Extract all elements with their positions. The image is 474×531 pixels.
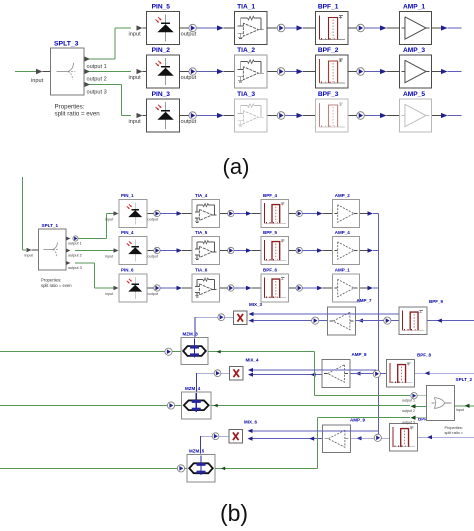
svg-text:PIN_6: PIN_6 xyxy=(121,267,134,272)
svg-text:MIX_6: MIX_6 xyxy=(244,420,258,425)
svg-text:output: output xyxy=(148,292,160,296)
svg-text:BPF_3: BPF_3 xyxy=(318,91,339,98)
svg-text:output 2: output 2 xyxy=(402,409,415,413)
svg-text:SPLT_2: SPLT_2 xyxy=(456,377,473,382)
svg-text:SPLT_1: SPLT_1 xyxy=(42,223,59,228)
svg-text:AMP_8: AMP_8 xyxy=(352,352,368,357)
svg-text:input: input xyxy=(31,78,44,84)
svg-text:AMP_2: AMP_2 xyxy=(335,193,351,198)
svg-text:output: output xyxy=(181,32,197,38)
svg-text:MZM_4: MZM_4 xyxy=(185,386,201,391)
svg-text:PIN_1: PIN_1 xyxy=(121,193,134,198)
svg-text:output: output xyxy=(181,75,197,81)
svg-text:MIX_3: MIX_3 xyxy=(249,302,263,307)
svg-text:input: input xyxy=(105,254,114,258)
svg-text:split ratio = even: split ratio = even xyxy=(55,111,101,118)
svg-text:AMP_1: AMP_1 xyxy=(335,267,351,272)
svg-text:output: output xyxy=(148,254,160,258)
svg-text:input: input xyxy=(25,254,34,258)
svg-text:input: input xyxy=(129,32,142,38)
svg-text:TIA_2: TIA_2 xyxy=(237,47,255,54)
svg-text:TIA_6: TIA_6 xyxy=(195,267,208,272)
svg-text:input: input xyxy=(129,119,142,125)
svg-text:input: input xyxy=(456,408,464,412)
svg-text:output: output xyxy=(181,119,197,125)
svg-text:Properties:: Properties: xyxy=(41,278,61,283)
svg-text:BPF_1: BPF_1 xyxy=(318,3,339,10)
svg-text:PIN_5: PIN_5 xyxy=(152,3,171,10)
svg-text:BPF_5: BPF_5 xyxy=(263,230,278,235)
svg-text:BPF_2: BPF_2 xyxy=(318,47,339,54)
svg-text:PIN_2: PIN_2 xyxy=(152,47,171,54)
svg-text:output 2: output 2 xyxy=(87,77,107,83)
svg-text:split ratio = even: split ratio = even xyxy=(41,283,72,288)
svg-text:split ratio =: split ratio = xyxy=(445,431,464,435)
svg-text:AMP_5: AMP_5 xyxy=(403,91,425,98)
svg-text:Properties:: Properties: xyxy=(445,426,463,430)
svg-text:PIN_3: PIN_3 xyxy=(152,91,171,98)
svg-text:output 3: output 3 xyxy=(402,420,415,424)
svg-text:PIN_4: PIN_4 xyxy=(121,230,134,235)
svg-text:TIA_3: TIA_3 xyxy=(237,91,255,98)
svg-text:output 1: output 1 xyxy=(68,241,82,245)
svg-text:(a): (a) xyxy=(223,154,250,179)
svg-text:BPF_8: BPF_8 xyxy=(417,353,432,358)
svg-text:MZM_3: MZM_3 xyxy=(183,332,199,337)
svg-text:AMP_9: AMP_9 xyxy=(350,418,366,423)
svg-text:input: input xyxy=(105,217,114,221)
svg-text:(b): (b) xyxy=(220,500,248,526)
svg-text:output: output xyxy=(148,217,160,221)
svg-text:AMP_3: AMP_3 xyxy=(403,47,425,54)
svg-text:TIA_5: TIA_5 xyxy=(195,230,208,235)
svg-text:output 3: output 3 xyxy=(68,266,82,270)
svg-text:MIX_4: MIX_4 xyxy=(246,358,260,363)
svg-text:TIA_1: TIA_1 xyxy=(237,3,255,10)
svg-text:Properties:: Properties: xyxy=(55,104,85,111)
svg-text:input: input xyxy=(105,292,114,296)
svg-text:BPF_4: BPF_4 xyxy=(263,193,278,198)
svg-text:input: input xyxy=(129,75,142,81)
svg-text:SPLT_3: SPLT_3 xyxy=(54,41,79,48)
svg-text:BPF_6: BPF_6 xyxy=(263,267,278,272)
svg-text:output 3: output 3 xyxy=(87,90,107,96)
svg-text:output 1: output 1 xyxy=(87,64,107,70)
svg-text:MZM_5: MZM_5 xyxy=(189,449,205,454)
svg-text:AMP_4: AMP_4 xyxy=(335,230,351,235)
svg-text:BPF_9: BPF_9 xyxy=(429,299,444,304)
svg-text:output 2: output 2 xyxy=(68,253,82,257)
svg-text:AMP_7: AMP_7 xyxy=(357,298,373,303)
svg-text:TIA_4: TIA_4 xyxy=(195,193,208,198)
svg-text:AMP_1: AMP_1 xyxy=(403,3,425,10)
